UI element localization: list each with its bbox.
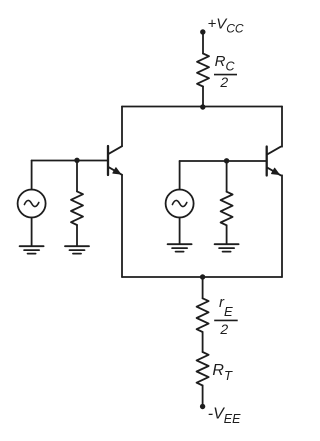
svg-text:+VCC: +VCC (208, 15, 244, 35)
wire Q2 emitter down (281, 175, 283, 277)
wire rE to RT (202, 332, 204, 352)
label RC/2 (214, 53, 237, 90)
wire RT to -VEE terminal (202, 386, 204, 407)
resistor R2 (221, 192, 233, 226)
resistor RC/2 (197, 54, 209, 87)
wire RC to top rail (202, 87, 204, 107)
svg-text:rE: rE (219, 294, 233, 319)
wire node to rE (202, 277, 204, 298)
wire node to resistor R2 (226, 161, 228, 192)
wire source V2 to base rail (179, 161, 181, 190)
node left base junction (74, 158, 79, 163)
wire Q2 base (180, 160, 267, 162)
wire source V1 to base rail (31, 161, 33, 190)
svg-text:RT: RT (212, 362, 233, 383)
label rE/2 (214, 294, 238, 337)
ground below V1 (20, 246, 44, 253)
wire R2 to ground (226, 225, 228, 244)
terminal +VCC dot (200, 29, 205, 34)
wire top rail (122, 106, 282, 108)
wire right collector drop (281, 107, 283, 147)
transistor Q2 (267, 147, 281, 176)
wire V2 to ground (179, 218, 181, 245)
svg-text:2: 2 (219, 321, 228, 337)
node bottom rail junction (200, 274, 205, 279)
wire VCC to RC (202, 32, 204, 54)
wire left collector drop (121, 107, 123, 147)
ground below R2 (215, 244, 239, 251)
AC source V2 (166, 190, 194, 218)
wire R1 to ground (76, 225, 78, 246)
AC source V1 (18, 190, 46, 218)
wire node to resistor R1 (76, 161, 78, 192)
resistor RT (197, 352, 209, 386)
wire bottom rail (122, 276, 282, 278)
ground below R1 (65, 246, 89, 253)
ground below V2 (168, 244, 192, 251)
svg-text:-VEE: -VEE (208, 405, 241, 426)
wire Q1 base (32, 160, 108, 162)
resistor rE/2 (197, 298, 209, 332)
transistor Q1 (108, 146, 122, 175)
resistor R1 (71, 191, 83, 225)
node middle base junction (224, 158, 229, 163)
svg-text:2: 2 (219, 74, 228, 90)
node top rail junction (200, 104, 205, 109)
wire Q1 emitter down (121, 175, 123, 277)
svg-text:RC: RC (215, 53, 236, 74)
wire V1 to ground (31, 218, 33, 247)
terminal -VEE dot (200, 404, 205, 409)
